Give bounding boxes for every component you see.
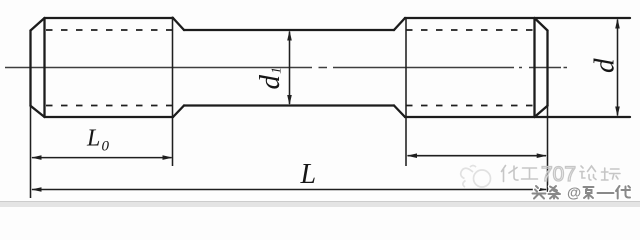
right thread-start extension (405, 18, 407, 166)
svg-text:L: L (86, 126, 100, 152)
svg-text:0: 0 (102, 139, 110, 155)
论 (580, 166, 596, 180)
right chamfer circle line (533, 18, 535, 117)
thread root dashed lines (46, 30, 534, 106)
svg-text:L: L (300, 159, 317, 190)
svg-text:@: @ (567, 186, 581, 202)
left shoulder bottom (173, 106, 184, 118)
right shoulder top (394, 18, 405, 30)
left chamfer circle line (43, 18, 45, 117)
left face extension down (30, 106, 32, 198)
坛 (602, 168, 621, 180)
right shoulder bottom (394, 106, 405, 118)
化 (502, 166, 519, 182)
left section bottom edge (45, 116, 174, 118)
L0 dimension line (31, 155, 173, 160)
头 (533, 186, 546, 199)
条 (549, 186, 561, 199)
left shoulder top (173, 18, 184, 30)
svg-text:d: d (589, 58, 621, 73)
watermark text: 化工707论坛 (502, 166, 621, 182)
left top chamfer (31, 18, 45, 31)
泵 (584, 187, 594, 199)
left bottom dashed (46, 105, 172, 107)
shank top edge (184, 29, 394, 31)
bottom gray strip (0, 202, 640, 208)
stud outline (31, 18, 631, 117)
right top chamfer (535, 18, 548, 31)
right thread length dimension line (407, 153, 547, 158)
svg-text:707: 707 (541, 163, 576, 186)
svg-text:d: d (254, 75, 286, 90)
label d (rotated) (589, 58, 621, 73)
right bottom chamfer (535, 106, 548, 117)
centerline (axis) (5, 67, 567, 69)
right end face (546, 31, 548, 106)
d dimension line (615, 18, 620, 117)
right top dashed (406, 29, 534, 31)
left top dashed (46, 29, 172, 31)
d1 dimension line (287, 30, 292, 105)
label d1 (rotated) (254, 67, 286, 90)
watermark text: 头条 @泵一代 (white halo + gray) (533, 186, 631, 199)
extension lines (31, 17, 548, 199)
right face extension down (547, 106, 549, 192)
right section top edge + d extension (405, 17, 630, 19)
right section bottom edge + d extension (405, 116, 630, 118)
svg-text:1: 1 (270, 67, 285, 74)
工 (522, 168, 538, 179)
L dimension line (31, 187, 547, 192)
watermark logo swirl (461, 166, 491, 188)
shank bottom edge (184, 104, 394, 106)
left bottom chamfer (31, 106, 45, 117)
代 (616, 186, 630, 199)
left section top edge (45, 17, 174, 19)
left end face (29, 31, 31, 106)
L0 right extension (172, 17, 174, 167)
right bottom dashed (406, 105, 534, 107)
一 (598, 192, 614, 194)
